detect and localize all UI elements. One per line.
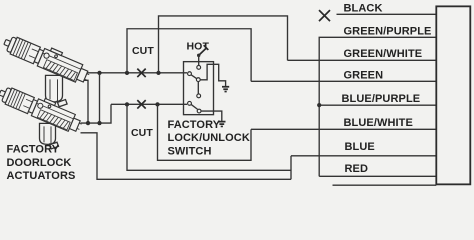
switch S2 pole circle — [188, 101, 192, 105]
svg-text:GREEN: GREEN — [344, 69, 384, 81]
wire: bottom bus to switch — [111, 103, 187, 105]
wire RED — [319, 175, 436, 177]
cut mark X1 on top bus — [137, 69, 145, 77]
node: junction dot lower lead at x87 — [86, 121, 90, 125]
actuator A1 boot ribs — [50, 79, 58, 100]
wire: bottom bus branch to BLUE/WHITE — [158, 104, 252, 160]
svg-text:FACTORY: FACTORY — [168, 119, 221, 131]
switch S2 lever — [191, 104, 197, 109]
actuator A2 rod blade — [50, 142, 59, 149]
svg-text:BLACK: BLACK — [344, 2, 383, 14]
svg-text:GREEN/WHITE: GREEN/WHITE — [344, 48, 423, 60]
switch S2 lower contact circle — [197, 109, 201, 113]
switch box outline — [184, 62, 214, 115]
switch S1 lower contact circle — [196, 78, 200, 82]
wire BLUE/WHITE — [251, 128, 436, 130]
switch S1 upper contact circle — [197, 65, 201, 69]
wire GREEN — [251, 80, 436, 82]
wire: stub along connector bottom — [333, 184, 437, 186]
actuator A1 rod blade — [58, 100, 68, 107]
wire: S2 lower contact to ground B — [201, 111, 222, 121]
node: HOT feed dot — [197, 54, 200, 57]
wire BLUE — [291, 155, 436, 157]
node: junction dot top bus at x99 — [97, 71, 101, 75]
actuator A2 boot ribs — [44, 126, 51, 143]
wire: top bus up over to GREEN — [127, 29, 251, 82]
node: junction dot top bus at x126 — [125, 71, 129, 75]
svg-text:BLUE/WHITE: BLUE/WHITE — [344, 117, 413, 129]
switch S1 lever — [191, 75, 197, 79]
wire: bottom bus branch down to middle run — [127, 104, 291, 170]
svg-text:GREEN/PURPLE: GREEN/PURPLE — [344, 25, 432, 37]
wire: S1 lower contact to ground A — [200, 64, 225, 86]
wire: lower actuator terminal 1 lead — [81, 104, 112, 123]
switch S1 pole circle — [188, 72, 192, 76]
svg-text:BLUE: BLUE — [345, 141, 375, 153]
HOT feed lever symbol — [199, 45, 209, 55]
cut mark X2 on bottom bus — [137, 100, 145, 108]
actuator A2 (lower doorlock actuator) — [0, 81, 85, 135]
wire BLUE/PURPLE — [319, 104, 436, 106]
node: junction dot on BLUE/PURPLE — [317, 103, 321, 107]
actuator A2 boot (lower) — [40, 123, 56, 144]
node: junction dot lower lead at x99 — [97, 121, 101, 125]
svg-text:ACTUATORS: ACTUATORS — [7, 170, 76, 182]
cut mark X3 on BLACK wire — [319, 10, 330, 21]
connector block — [436, 6, 470, 184]
actuator A1 lock rod — [57, 100, 61, 105]
wire: top bus up over to GREEN/WHITE — [159, 16, 288, 73]
svg-text:RED: RED — [345, 163, 369, 175]
svg-text:FACTORY: FACTORY — [7, 144, 60, 156]
ground B — [218, 122, 225, 127]
svg-text:LOCK/UNLOCK: LOCK/UNLOCK — [168, 132, 250, 144]
wire: S1 to S2 link — [197, 82, 199, 94]
wire GREEN/WHITE — [288, 59, 437, 61]
actuator A1 (upper doorlock actuator) — [1, 30, 93, 86]
switch S2 upper contact circle — [197, 94, 201, 98]
svg-text:BLUE/PURPLE: BLUE/PURPLE — [342, 93, 421, 105]
wire: upper actuator terminal 2 drop — [84, 80, 89, 123]
node: junction dot bottom bus at x126 — [125, 102, 129, 106]
ground A — [222, 87, 229, 92]
actuator A2 lock rod — [50, 143, 53, 147]
svg-text:CUT: CUT — [131, 127, 153, 139]
actuator A1 boot (upper) — [46, 75, 63, 102]
svg-text:DOORLOCK: DOORLOCK — [7, 157, 72, 169]
wire: HOT stem into switch — [198, 55, 200, 65]
wire: parallel link vertical x99 — [99, 73, 101, 123]
wire: lower actuator terminal 2 drop to bottom run — [81, 133, 292, 180]
svg-text:CUT: CUT — [132, 45, 154, 57]
wire: vertical link up to BLUE — [290, 156, 292, 180]
wire GREEN/PURPLE with long vertical branch — [319, 37, 436, 176]
wire BLACK — [337, 13, 437, 15]
node: junction dot bottom bus at x157 — [155, 102, 159, 106]
wire: upper actuator terminal 1 to top bus — [88, 72, 188, 74]
svg-text:SWITCH: SWITCH — [168, 145, 212, 157]
node: junction dot top bus at x158 — [156, 71, 160, 75]
